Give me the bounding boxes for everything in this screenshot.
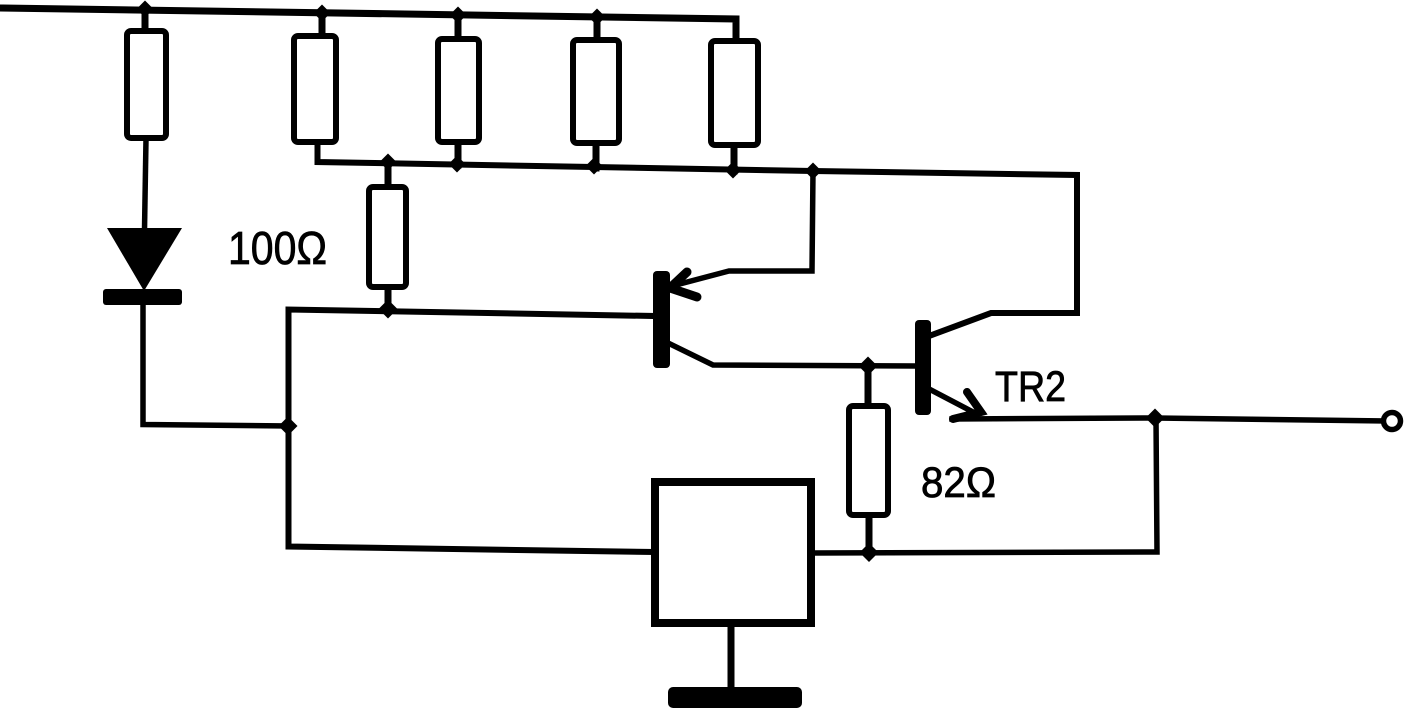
svg-text:82Ω: 82Ω [921, 459, 996, 507]
svg-text:TR2: TR2 [995, 363, 1066, 411]
svg-text:100Ω: 100Ω [228, 222, 327, 274]
